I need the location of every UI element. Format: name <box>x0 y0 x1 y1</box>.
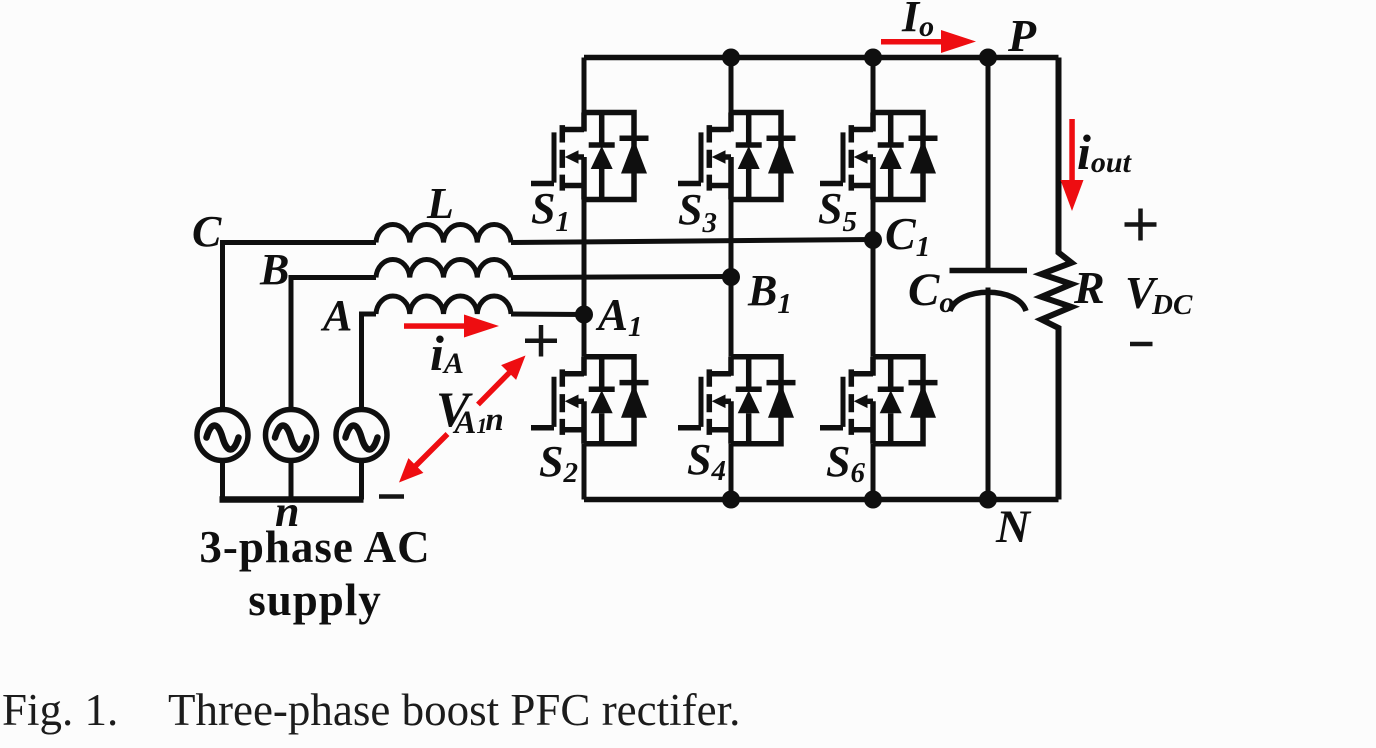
svg-text:R: R <box>1073 262 1105 313</box>
minus sign output <box>1130 342 1153 347</box>
switch S1 (MOSFET + antiparallel diodes) <box>531 113 649 200</box>
wire: phase B line to inductor <box>289 275 377 280</box>
svg-text:C: C <box>192 207 222 256</box>
wire: S4 source to bottom bus <box>729 444 734 500</box>
voltage arrow VA1n upper segment <box>478 372 510 405</box>
wire: node B1 to S4 drain <box>729 277 734 357</box>
AC source Va <box>336 410 387 461</box>
node C1 junction dot <box>864 231 882 249</box>
wire: column B1 (S3 drain from bus) <box>729 58 734 113</box>
plus sign at A1 <box>525 325 557 357</box>
wire: phase A source drop <box>359 314 364 410</box>
AC source Vc <box>197 410 248 461</box>
svg-text:3-phase AC: 3-phase AC <box>199 522 430 572</box>
wire: S5 source to node C1 <box>871 200 876 241</box>
plus sign output <box>1125 209 1157 241</box>
wire: column C1 (S5 drain from bus) <box>871 58 876 113</box>
wire: node C1 to S6 drain <box>871 240 876 357</box>
wire: capacitor branch bottom <box>986 288 991 500</box>
node A1 junction dot <box>575 306 593 324</box>
wire: top DC bus P rail <box>584 55 1059 61</box>
wire: phase C line inductor to node C1 <box>511 240 873 243</box>
wire: S2 source to bottom bus <box>582 444 587 500</box>
inductor L (phase A) <box>376 296 511 314</box>
svg-text:supply: supply <box>248 575 382 625</box>
current arrow Io <box>881 39 943 45</box>
junction dot bottom bus / S6 <box>864 491 882 509</box>
svg-text:A: A <box>320 291 352 340</box>
wire: phase B source drop <box>289 278 294 410</box>
wire: phase A line to inductor <box>359 312 376 317</box>
AC source Vb <box>266 410 317 461</box>
wire: S1 source to node A1 <box>582 200 587 315</box>
wire: S3 source to node B1 <box>729 200 734 278</box>
junction dot top bus / S5 <box>864 49 882 67</box>
node B1 junction dot <box>722 268 740 286</box>
minus sign near source neutral <box>379 494 404 499</box>
wire: phase C line to inductor <box>220 240 376 245</box>
switch S3 (MOSFET + antiparallel diodes) <box>678 113 796 200</box>
current arrow iout <box>1069 119 1075 182</box>
resistor R branch with zigzag <box>1042 58 1072 500</box>
svg-text:P: P <box>1007 10 1037 61</box>
svg-text:B: B <box>259 245 289 294</box>
node N junction dot <box>979 491 997 509</box>
wire: bottom DC bus N rail <box>584 497 1059 503</box>
wire: column A1 (S1 drain from bus) <box>582 58 587 113</box>
wire: phase B line inductor to node B1 <box>511 277 731 278</box>
inductor L (phase B) <box>376 260 511 278</box>
current arrow iA <box>404 323 466 329</box>
node P junction dot <box>979 49 997 67</box>
junction dot bottom bus / S4 <box>722 491 740 509</box>
inductor L (phase C) <box>376 225 511 243</box>
wire: node A1 to S2 drain <box>582 315 587 357</box>
svg-text:Fig. 1.Three-phase boost PFC r: Fig. 1.Three-phase boost PFC rectifer. <box>2 685 740 735</box>
junction dot top bus / S3 <box>722 49 740 67</box>
wire: phase C source drop <box>220 243 225 410</box>
switch S4 (MOSFET + antiparallel diodes) <box>678 357 796 444</box>
capacitor Co bottom curved plate <box>950 292 1026 311</box>
switch S6 (MOSFET + antiparallel diodes) <box>820 357 938 444</box>
wire: neutral bus n <box>220 496 364 503</box>
voltage arrow VA1n lower segment <box>414 434 448 468</box>
switch S5 (MOSFET + antiparallel diodes) <box>820 113 938 200</box>
wire: capacitor branch top <box>986 58 991 270</box>
svg-text:L: L <box>426 179 454 228</box>
wire: phase A line inductor to node A1 <box>511 312 584 318</box>
svg-text:N: N <box>995 501 1032 553</box>
capacitor Co top plate <box>950 268 1028 274</box>
switch S2 (MOSFET + antiparallel diodes) <box>531 357 649 444</box>
wire: S6 source to bottom bus <box>871 444 876 500</box>
wire: source bottoms to neutral n <box>223 461 362 500</box>
